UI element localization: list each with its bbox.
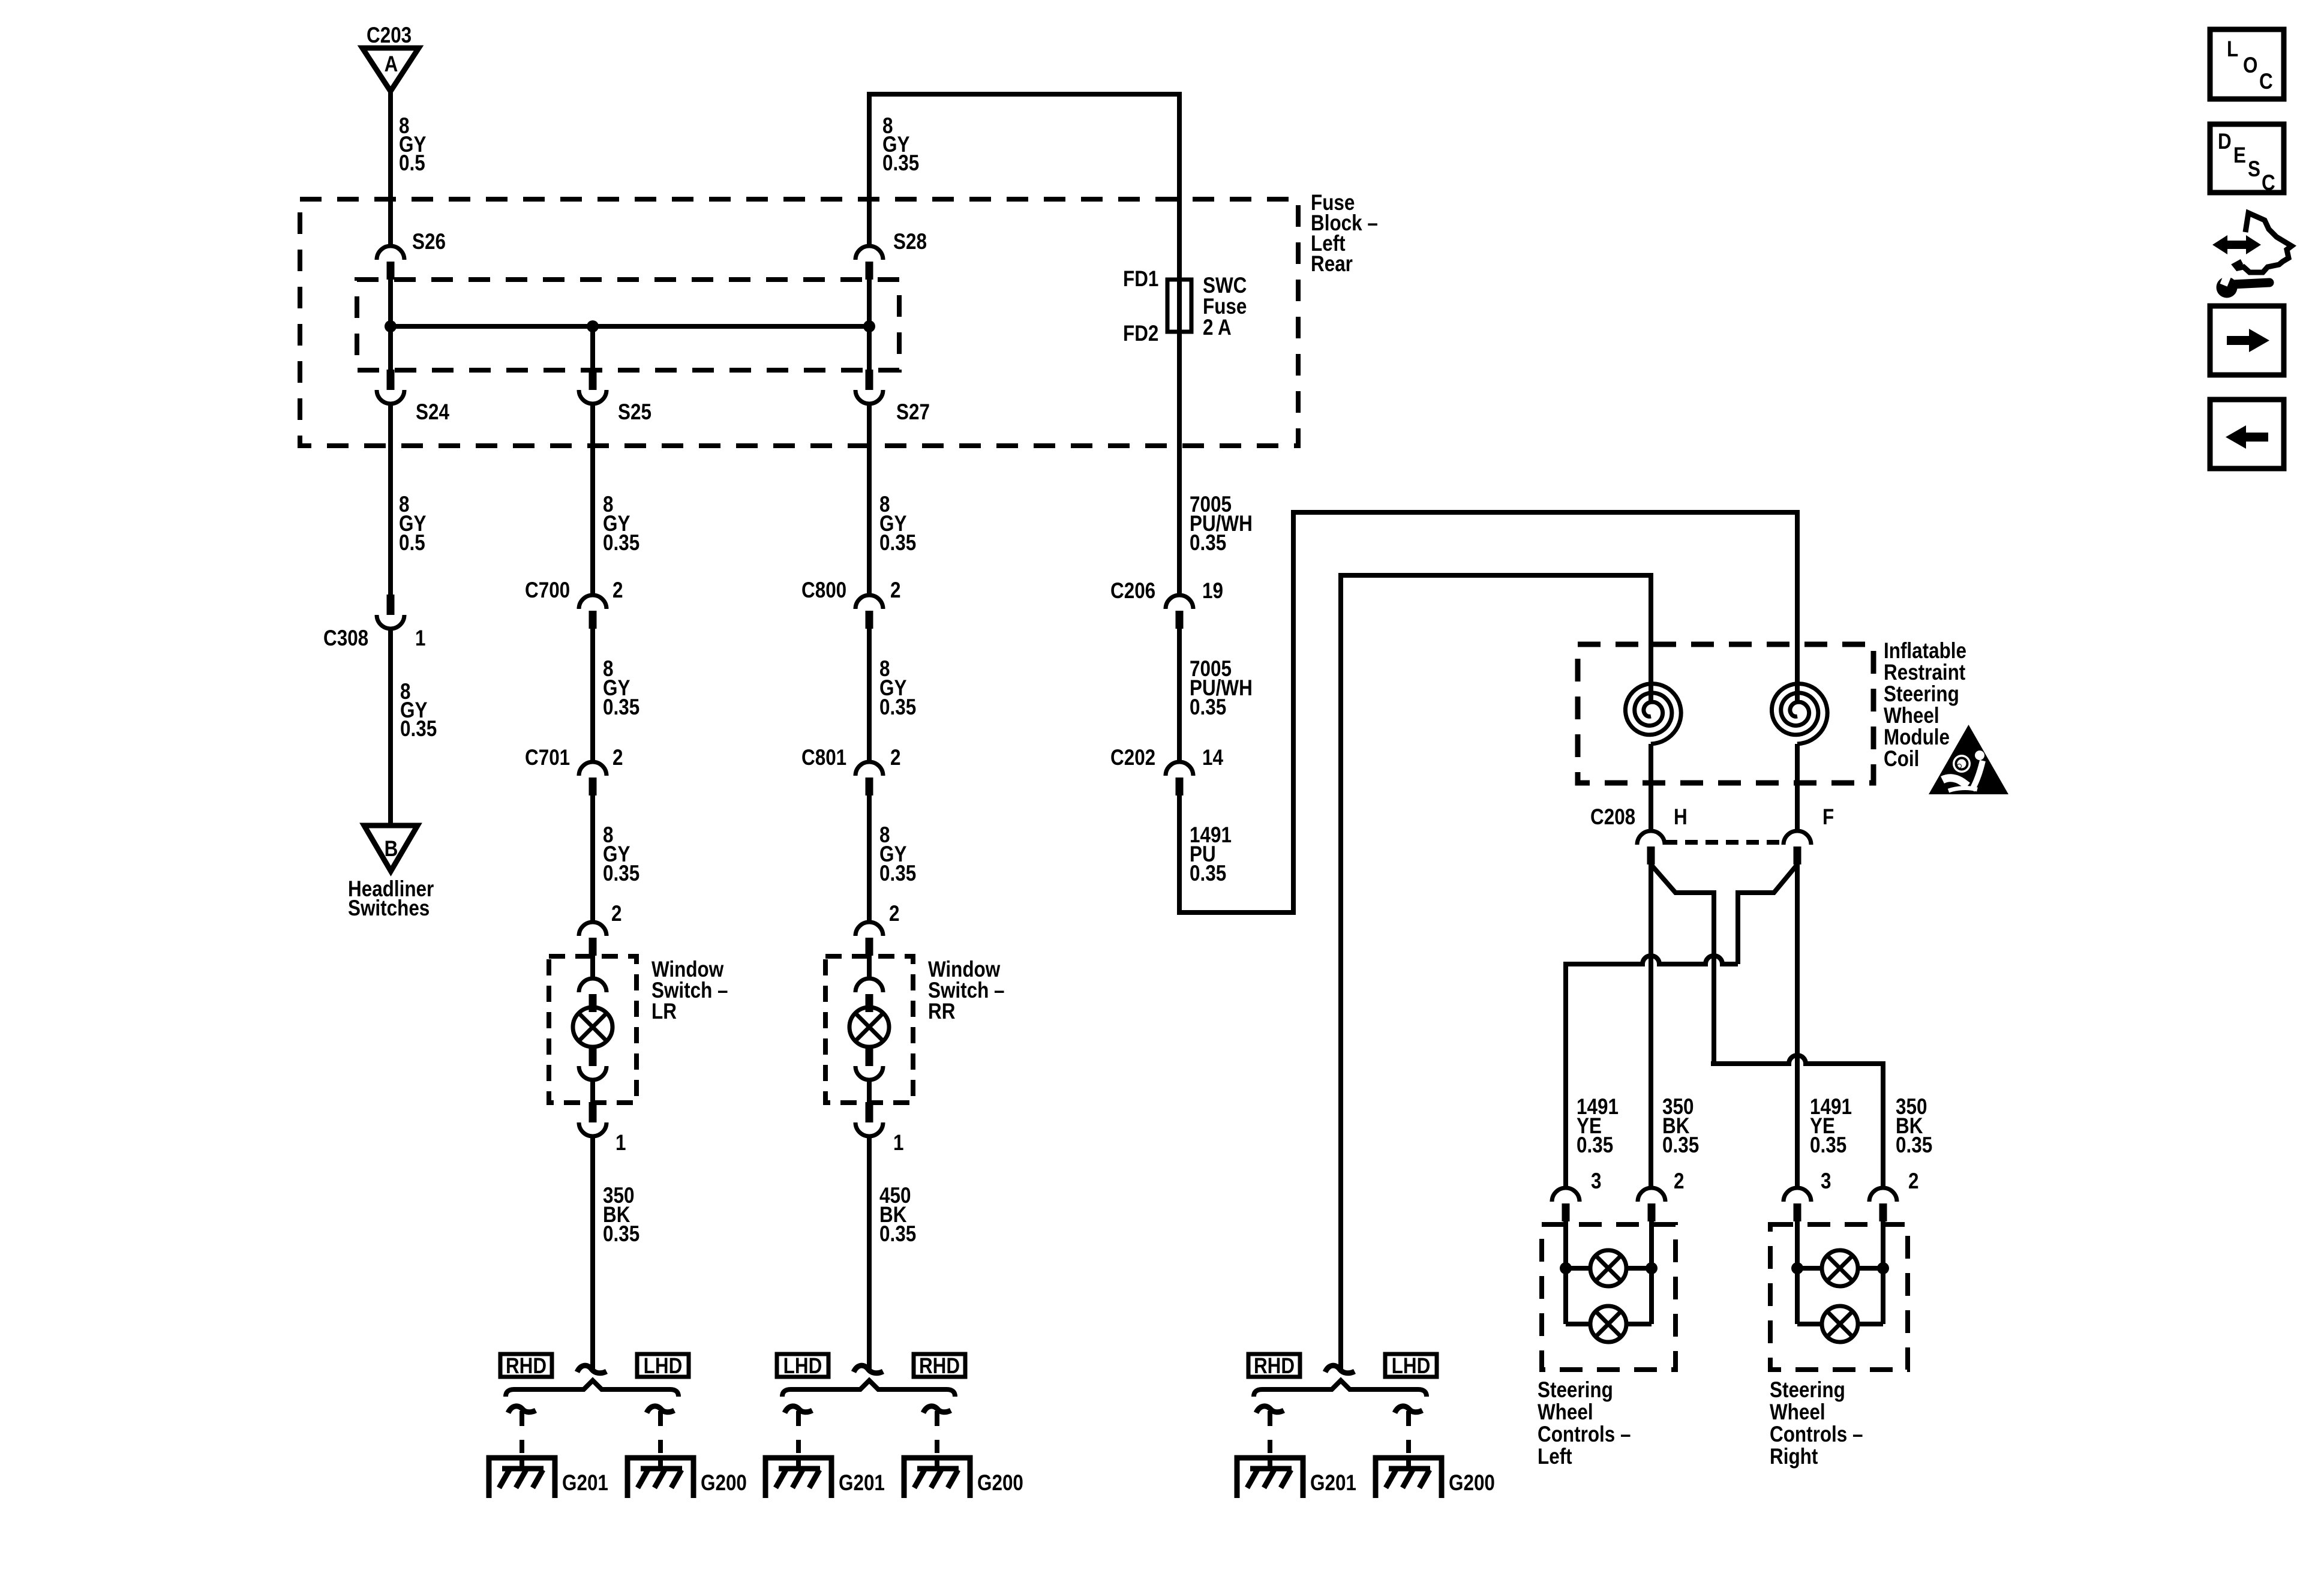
svg-text:O: O	[2243, 53, 2257, 78]
svg-text:0.35: 0.35	[879, 695, 916, 720]
svg-text:C202: C202	[1110, 746, 1155, 770]
svg-text:G201: G201	[1310, 1471, 1356, 1496]
svg-text:0.5: 0.5	[399, 531, 425, 556]
svg-text:Wheel: Wheel	[1538, 1400, 1593, 1425]
svg-text:0.35: 0.35	[1190, 861, 1226, 886]
svg-text:B: B	[385, 837, 398, 861]
svg-text:RHD: RHD	[506, 1354, 547, 1379]
svg-text:1: 1	[615, 1131, 626, 1155]
svg-text:C800: C800	[801, 578, 846, 603]
svg-text:RHD: RHD	[1254, 1354, 1295, 1379]
svg-text:0.35: 0.35	[879, 1222, 916, 1247]
svg-text:0.35: 0.35	[603, 695, 639, 720]
svg-text:G201: G201	[839, 1471, 885, 1496]
svg-text:0.35: 0.35	[1662, 1133, 1699, 1158]
svg-text:C308: C308	[323, 626, 368, 651]
svg-text:A: A	[385, 52, 398, 77]
svg-text:Switches: Switches	[348, 896, 430, 921]
svg-text:0.35: 0.35	[603, 861, 639, 886]
svg-text:2: 2	[612, 746, 623, 770]
svg-text:2: 2	[612, 578, 623, 603]
svg-text:0.35: 0.35	[1190, 531, 1226, 556]
svg-text:RHD: RHD	[919, 1354, 960, 1379]
svg-text:1: 1	[415, 626, 425, 651]
svg-text:S24: S24	[416, 400, 449, 425]
svg-text:Controls –: Controls –	[1770, 1422, 1863, 1447]
svg-text:E: E	[2233, 143, 2246, 168]
svg-text:3: 3	[1591, 1169, 1601, 1194]
svg-text:0.35: 0.35	[1190, 695, 1226, 720]
svg-text:C801: C801	[801, 746, 846, 770]
svg-text:Steering: Steering	[1538, 1378, 1613, 1403]
svg-text:Module: Module	[1884, 725, 1950, 750]
svg-text:Wheel: Wheel	[1884, 704, 1939, 728]
svg-text:C: C	[2262, 171, 2275, 196]
svg-text:FD1: FD1	[1123, 267, 1158, 292]
svg-text:0.35: 0.35	[1810, 1133, 1846, 1158]
svg-text:C701: C701	[525, 746, 570, 770]
svg-text:1: 1	[893, 1131, 903, 1155]
svg-text:3: 3	[1821, 1169, 1831, 1194]
svg-text:0.35: 0.35	[400, 717, 437, 742]
svg-text:C208: C208	[1590, 805, 1635, 830]
svg-text:LHD: LHD	[783, 1354, 822, 1379]
svg-text:S28: S28	[893, 230, 927, 254]
svg-text:0.5: 0.5	[399, 151, 425, 176]
svg-text:C700: C700	[525, 578, 570, 603]
svg-text:D: D	[2218, 130, 2232, 154]
svg-text:L: L	[2227, 37, 2238, 62]
svg-text:0.35: 0.35	[1896, 1133, 1932, 1158]
svg-text:2: 2	[1674, 1169, 1684, 1194]
svg-text:S27: S27	[896, 400, 930, 425]
svg-text:0.35: 0.35	[603, 531, 639, 556]
svg-text:H: H	[1674, 805, 1688, 830]
svg-text:Rear: Rear	[1311, 252, 1353, 277]
svg-text:0.35: 0.35	[1577, 1133, 1613, 1158]
svg-text:G200: G200	[701, 1471, 747, 1496]
svg-text:0.35: 0.35	[603, 1222, 639, 1247]
svg-text:Left: Left	[1538, 1445, 1572, 1469]
svg-text:LHD: LHD	[1392, 1354, 1431, 1379]
svg-text:C: C	[2259, 70, 2273, 94]
svg-text:G200: G200	[1449, 1471, 1495, 1496]
svg-text:S25: S25	[618, 400, 651, 425]
svg-text:2: 2	[890, 746, 900, 770]
svg-text:S: S	[2248, 157, 2260, 182]
svg-text:LR: LR	[651, 999, 677, 1024]
svg-text:2: 2	[889, 902, 899, 926]
svg-text:Inflatable: Inflatable	[1884, 639, 1966, 664]
svg-text:2 A: 2 A	[1203, 316, 1232, 340]
svg-text:Steering: Steering	[1770, 1378, 1845, 1403]
svg-text:G201: G201	[562, 1471, 608, 1496]
svg-text:C203: C203	[367, 23, 412, 48]
svg-text:19: 19	[1202, 579, 1223, 604]
svg-text:2: 2	[890, 578, 900, 603]
svg-text:2: 2	[1908, 1169, 1918, 1194]
svg-text:14: 14	[1202, 746, 1223, 770]
svg-text:Steering: Steering	[1884, 682, 1959, 707]
svg-text:Wheel: Wheel	[1770, 1400, 1825, 1425]
svg-text:0.35: 0.35	[882, 151, 919, 176]
svg-text:G200: G200	[977, 1471, 1023, 1496]
svg-text:C206: C206	[1110, 579, 1155, 604]
svg-text:2: 2	[611, 902, 621, 926]
svg-text:S26: S26	[412, 230, 446, 254]
svg-text:F: F	[1822, 805, 1834, 830]
svg-text:0.35: 0.35	[879, 531, 916, 556]
svg-text:FD2: FD2	[1123, 322, 1158, 346]
svg-text:0.35: 0.35	[879, 861, 916, 886]
svg-text:Restraint: Restraint	[1884, 661, 1966, 685]
svg-text:LHD: LHD	[644, 1354, 683, 1379]
svg-text:Coil: Coil	[1884, 747, 1919, 772]
svg-text:Right: Right	[1770, 1445, 1818, 1469]
svg-text:RR: RR	[928, 999, 956, 1024]
svg-text:Controls –: Controls –	[1538, 1422, 1631, 1447]
